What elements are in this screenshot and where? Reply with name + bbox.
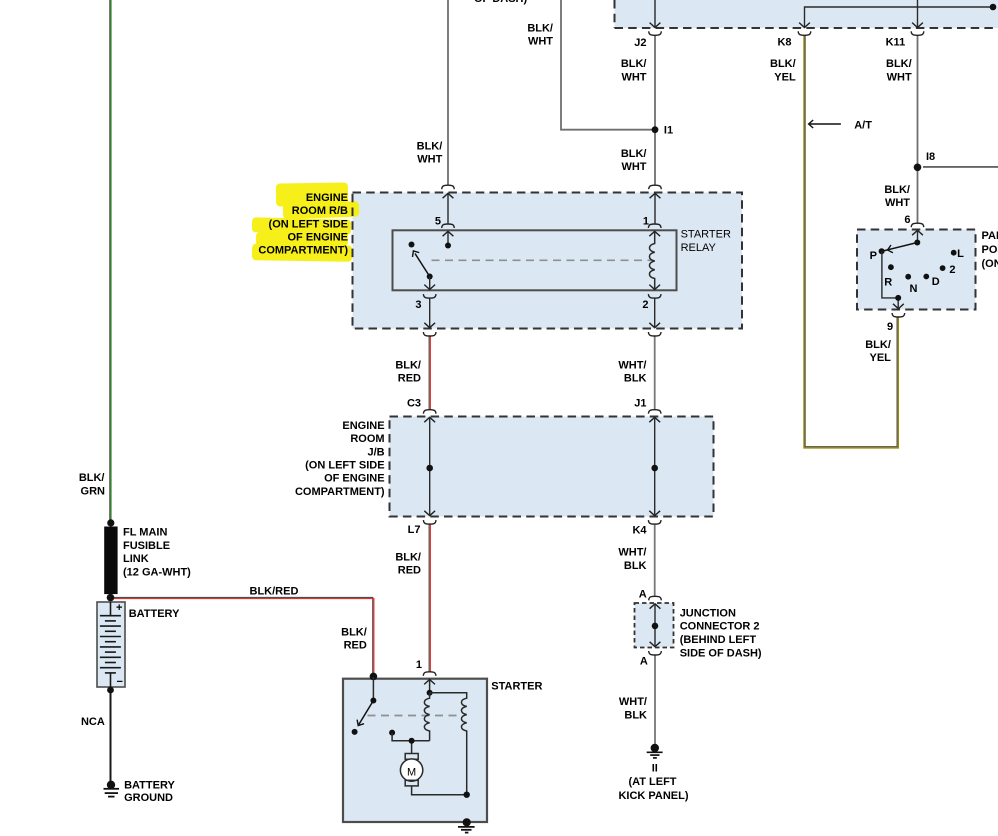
- battery ground node and symbol: [107, 781, 115, 789]
- starter relay switch arm: [415, 254, 430, 277]
- connector J2 at dash J/B box edge: [650, 23, 661, 28]
- svg-text:5: 5: [435, 215, 441, 227]
- relay pin 3 connector at R/B box bottom: [424, 323, 435, 328]
- svg-text:(AT LEFT: (AT LEFT: [628, 776, 676, 788]
- starter plunger contact: [389, 730, 395, 736]
- svg-text:(BEHIND LEFT: (BEHIND LEFT: [680, 634, 757, 646]
- svg-text:−: −: [117, 676, 123, 688]
- svg-text:ROOM R/B: ROOM R/B: [292, 205, 348, 217]
- connector K11 at dash J/B box edge: [912, 23, 923, 28]
- svg-text:WHT/: WHT/: [618, 547, 646, 559]
- wire BLK/YEL from K8 to PNP switch pin 9: [805, 35, 897, 446]
- starter pin 1 node: [429, 680, 431, 693]
- svg-text:+: +: [116, 602, 122, 614]
- svg-text:BLK/: BLK/: [884, 184, 910, 196]
- J/B internal wire J1-K4 with node: [654, 417, 656, 516]
- svg-text:OF DASH): OF DASH): [474, 0, 528, 5]
- relay pin5 wire between box edges: [447, 194, 449, 225]
- svg-text:R: R: [884, 276, 892, 288]
- PNP contact L: [951, 250, 957, 256]
- svg-text:ENGINE: ENGINE: [342, 420, 384, 432]
- svg-text:II: II: [652, 763, 658, 775]
- svg-text:WHT: WHT: [528, 36, 553, 48]
- PNP contact D: [923, 274, 929, 280]
- fusible link node bottom / battery positive junction: [107, 594, 115, 602]
- wire BLK/RED battery positive to starter: [110, 597, 373, 676]
- wire BLK/WHT from J2 through I1 to relay pin 1: [654, 35, 656, 185]
- PNP contact P: [879, 248, 885, 254]
- starter solenoid coil 2 branch: [430, 693, 467, 795]
- svg-text:D: D: [932, 276, 940, 288]
- svg-text:3: 3: [415, 299, 421, 311]
- svg-text:(ON LEFT: (ON LEFT: [982, 258, 998, 270]
- junction connector 2 box border (dashed): [635, 603, 674, 648]
- starter solenoid coil 1: [424, 693, 429, 741]
- svg-text:WHT: WHT: [621, 71, 646, 83]
- starter relay pin5 internal stub: [447, 232, 449, 246]
- svg-text:I1: I1: [664, 125, 673, 137]
- wire from node I8 to right edge: [923, 166, 998, 168]
- svg-text:1: 1: [416, 659, 422, 671]
- wire J2 inside dash J/B box: [654, 0, 656, 28]
- engine room R/B box fill: [353, 193, 743, 329]
- svg-text:BLK/: BLK/: [341, 626, 367, 638]
- svg-text:1: 1: [643, 215, 649, 227]
- fusible link node top: [107, 519, 114, 526]
- motor to ground wire: [412, 786, 467, 795]
- starter relay U: internal dashed link: [432, 259, 654, 261]
- svg-text:(ON LEFT SIDE: (ON LEFT SIDE: [269, 218, 348, 230]
- svg-text:9: 9: [887, 321, 893, 333]
- svg-text:L7: L7: [408, 524, 421, 536]
- svg-text:RELAY: RELAY: [681, 242, 717, 254]
- svg-text:CONNECTOR 2: CONNECTOR 2: [680, 621, 760, 633]
- A/T arrow: [810, 123, 841, 125]
- wire WHT/BLK from junction connector 2 to ground II: [654, 655, 656, 746]
- svg-text:BLK/: BLK/: [79, 472, 105, 484]
- wire inside dash J/B box to K8: [805, 7, 994, 28]
- starter relay coil: [649, 232, 654, 290]
- connector L7 at J/B box bottom: [424, 511, 435, 516]
- node I8: [914, 164, 922, 172]
- svg-text:2: 2: [949, 264, 955, 276]
- PNP contact R: [888, 264, 894, 270]
- motor M: terminal blocks and body: [405, 754, 418, 760]
- FL MAIN fusible link body: [104, 527, 117, 595]
- svg-text:WHT/: WHT/: [618, 359, 646, 371]
- svg-text:WHT: WHT: [621, 161, 646, 173]
- svg-text:RED: RED: [398, 373, 421, 385]
- svg-text:BLK/: BLK/: [395, 359, 421, 371]
- svg-text:BLK: BLK: [624, 709, 647, 721]
- starter relay inner box: [393, 230, 677, 290]
- svg-text:WHT: WHT: [887, 71, 912, 83]
- svg-text:K4: K4: [632, 524, 647, 536]
- svg-text:OF ENGINE: OF ENGINE: [324, 473, 385, 485]
- svg-text:KICK PANEL): KICK PANEL): [618, 790, 688, 802]
- svg-text:K8: K8: [777, 36, 791, 48]
- svg-text:J1: J1: [634, 398, 646, 410]
- svg-text:(ON LEFT SIDE: (ON LEFT SIDE: [305, 460, 384, 472]
- svg-text:C3: C3: [407, 398, 421, 410]
- svg-text:LINK: LINK: [123, 553, 149, 565]
- relay pin 2 connector at inner box bottom: [649, 285, 660, 290]
- PNP contact 2: [940, 265, 946, 271]
- relay pin3 wire between inner cup and box edge: [429, 298, 431, 327]
- svg-text:SIDE OF DASH): SIDE OF DASH): [680, 648, 762, 660]
- svg-text:JUNCTION: JUNCTION: [680, 607, 736, 619]
- svg-text:6: 6: [904, 214, 910, 226]
- relay pin 5 connector at R/B box top: [442, 185, 455, 189]
- svg-text:STARTER: STARTER: [681, 229, 731, 241]
- svg-text:P: P: [870, 250, 877, 262]
- connector 6 at PNP switch box top: [911, 223, 924, 227]
- svg-text:PARK/NEUTRAL: PARK/NEUTRAL: [982, 230, 998, 242]
- park/neutral position switch box fill: [857, 230, 976, 310]
- relay pin 2 connector at R/B box bottom: [649, 323, 660, 328]
- battery internal plates: [100, 602, 121, 687]
- starter: node where BLK/RED meets box edge: [370, 673, 378, 681]
- node I1: [652, 126, 659, 133]
- svg-text:BLK/: BLK/: [886, 58, 912, 70]
- battery box fill: [97, 602, 125, 687]
- svg-text:YEL: YEL: [869, 352, 891, 364]
- svg-text:BATTERY: BATTERY: [124, 780, 175, 792]
- wire BLK/WHT to relay pin 5: [447, 0, 449, 185]
- svg-text:WHT: WHT: [417, 154, 442, 166]
- connector C3 at J/B box top: [423, 410, 436, 414]
- starter box fill: [343, 679, 487, 822]
- svg-text:2: 2: [642, 299, 648, 311]
- svg-text:I8: I8: [926, 151, 935, 163]
- svg-text:OF ENGINE: OF ENGINE: [287, 232, 348, 244]
- highlighter mark over ENGINE ROOM R/B note: [252, 182, 359, 261]
- wire K11 inside dash J/B box: [917, 0, 919, 28]
- svg-text:BLK/: BLK/: [770, 58, 796, 70]
- svg-text:ENGINE: ENGINE: [306, 192, 348, 204]
- svg-text:BLK/: BLK/: [395, 551, 421, 563]
- wire WHT/BLK from K4 to junction connector 2: [654, 524, 656, 596]
- relay pin 3 connector at inner box bottom: [424, 285, 435, 290]
- wire WHT/BLK relay pin 2 to J1: [654, 336, 656, 410]
- svg-text:J2: J2: [634, 37, 646, 49]
- wire BLK/GRN vertical at left: [109, 0, 111, 523]
- relay pin 5 connector at inner box top: [442, 224, 455, 228]
- starter ground node and symbol: [463, 818, 471, 826]
- svg-text:BLK: BLK: [624, 373, 647, 385]
- dash side J/B box fill (top right): [615, 0, 998, 28]
- connector K8 at dash J/B box edge: [799, 23, 810, 28]
- PNP switch arm to P: [884, 243, 918, 251]
- PNP contact N: [905, 274, 911, 280]
- dash side J/B box border (top right, dashed): [614, 0, 616, 28]
- relay pin2 wire between inner cup and box edge: [654, 298, 656, 327]
- svg-text:RED: RED: [344, 640, 367, 652]
- PNP switch pin 6 internal stub: [917, 230, 919, 243]
- svg-text:COMPARTMENT): COMPARTMENT): [295, 486, 385, 498]
- wire BLK/RED relay pin 3 to C3: [428, 336, 430, 410]
- starter switch arm: [359, 701, 374, 725]
- wire BLK/RED from L7 down to starter pin 1: [428, 524, 430, 672]
- svg-text:FUSIBLE: FUSIBLE: [123, 540, 170, 552]
- engine room R/B box border (dashed): [353, 193, 743, 329]
- svg-text:COMPARTMENT): COMPARTMENT): [258, 245, 348, 257]
- starter junction to motor: [412, 741, 430, 754]
- svg-text:FL MAIN: FL MAIN: [123, 527, 167, 539]
- engine room J/B box border (dashed): [390, 417, 714, 517]
- svg-text:K11: K11: [886, 36, 906, 48]
- connector A at junction connector 2 top: [649, 596, 662, 600]
- svg-text:NCA: NCA: [81, 716, 105, 728]
- svg-text:YEL: YEL: [774, 71, 796, 83]
- junction connector 2 box fill: [635, 603, 674, 648]
- svg-text:J/B: J/B: [367, 446, 384, 458]
- engine room J/B box fill: [390, 417, 714, 517]
- J/B internal wire C3-L7 with node: [429, 417, 431, 516]
- svg-text:BLK/: BLK/: [527, 23, 553, 35]
- svg-text:BLK/: BLK/: [621, 148, 647, 160]
- PNP wire P to pin 9: [882, 251, 898, 308]
- battery box border: [97, 602, 125, 687]
- park/neutral position switch box border (dashed): [857, 230, 976, 310]
- node junction in dash J/B box: [990, 4, 997, 11]
- connector 1 at starter box top: [423, 672, 436, 676]
- svg-text:GROUND: GROUND: [124, 792, 173, 804]
- svg-text:BATTERY: BATTERY: [129, 608, 180, 620]
- relay pin 1 connector at inner box top: [648, 224, 661, 228]
- svg-text:STARTER: STARTER: [491, 681, 542, 693]
- starter switch fixed contact: [352, 729, 358, 735]
- svg-text:ROOM: ROOM: [350, 433, 384, 445]
- svg-text:L: L: [957, 248, 964, 260]
- svg-text:BLK: BLK: [624, 560, 647, 572]
- connector K4 at J/B box bottom: [649, 511, 660, 516]
- svg-text:WHT/: WHT/: [619, 696, 647, 708]
- svg-text:A/T: A/T: [854, 120, 872, 132]
- relay pin1 wire between box edges: [654, 194, 656, 225]
- ground II node and symbol: [651, 744, 659, 752]
- svg-text:BLK/: BLK/: [865, 339, 891, 351]
- svg-text:BLK/RED: BLK/RED: [250, 586, 299, 598]
- battery negative node: [107, 687, 114, 694]
- connector J1 at J/B box top: [648, 410, 661, 414]
- svg-text:(12 GA-WHT): (12 GA-WHT): [123, 566, 191, 578]
- wire BLK/WHT elbow to node I1: [561, 0, 655, 130]
- svg-text:M: M: [407, 766, 416, 778]
- svg-text:N: N: [910, 283, 918, 295]
- connector A at junction connector 2 bottom: [650, 642, 661, 647]
- svg-text:A: A: [639, 589, 647, 601]
- starter box border (solid): [343, 679, 487, 822]
- svg-text:WHT: WHT: [885, 197, 910, 209]
- wire NCA battery negative to ground: [110, 690, 112, 782]
- wire BLK/WHT from K11 through I8 to PNP pin 6: [917, 35, 919, 223]
- starter internal dashed link: [368, 715, 462, 717]
- relay pin 1 connector at R/B box top: [649, 185, 662, 189]
- svg-text:BLK/: BLK/: [621, 58, 647, 70]
- starter relay switch fixed contact: [409, 242, 415, 248]
- svg-text:BLK/: BLK/: [417, 141, 443, 153]
- svg-text:GRN: GRN: [81, 486, 106, 498]
- svg-text:RED: RED: [398, 565, 421, 577]
- svg-text:A: A: [640, 655, 648, 667]
- connector 9 at PNP switch box bottom: [893, 304, 904, 309]
- starter switch pivot wire: [372, 677, 374, 701]
- junction connector 2 internal wire and node: [654, 604, 656, 648]
- svg-text:POSITION SW: POSITION SW: [982, 244, 998, 256]
